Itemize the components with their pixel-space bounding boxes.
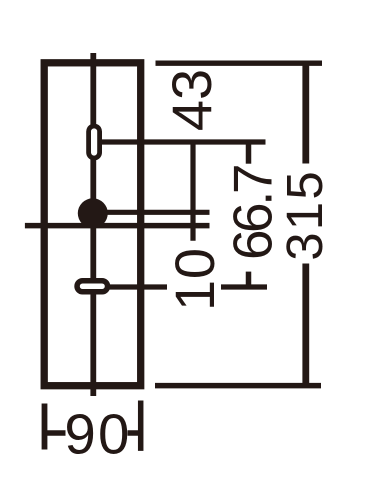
- top extension line (315): [156, 61, 323, 66]
- dimension line 66.7 lower segment: [246, 272, 252, 287]
- upper slot extension line: [100, 139, 266, 144]
- dimension line 315 lower segment: [302, 264, 309, 389]
- dimension line 10 (vertical): [190, 142, 195, 241]
- white gap behind 10 text: [167, 246, 221, 312]
- svg-text:90: 90: [64, 402, 129, 465]
- 90 dimension line right segment: [128, 430, 141, 436]
- lower slot extension line: [105, 284, 267, 289]
- upper slot hole: [89, 126, 100, 158]
- bottom extension line (315): [155, 383, 321, 389]
- svg-text:10: 10: [163, 248, 226, 311]
- 90 dimension line left segment: [46, 430, 66, 436]
- fixture outline rectangle: [44, 63, 141, 386]
- svg-text:66.7: 66.7: [222, 164, 284, 260]
- svg-text:315: 315: [276, 171, 333, 261]
- svg-text:43: 43: [160, 69, 223, 131]
- lower slot hole: [77, 281, 108, 292]
- dimension line 315 upper segment: [302, 63, 309, 163]
- dimension line 66.7 upper segment: [246, 142, 252, 164]
- centerline (vertical): [90, 53, 96, 396]
- 90 dimension right tick: [138, 401, 144, 451]
- horizontal crosshair line through mounting hole (left extension): [25, 223, 210, 229]
- 90 dimension left tick: [42, 404, 48, 450]
- mounting circle (filled): [78, 198, 108, 228]
- mounting hole center line A: [100, 210, 210, 215]
